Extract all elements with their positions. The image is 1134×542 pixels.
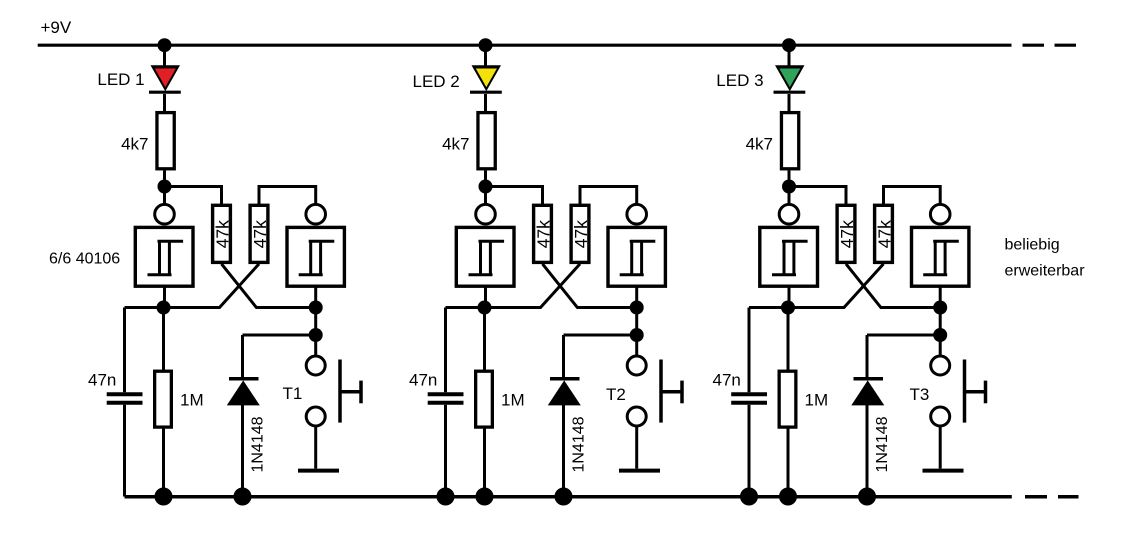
- svg-text:LED 1: LED 1: [97, 70, 144, 89]
- svg-text:T2: T2: [606, 385, 626, 404]
- svg-text:erweiterbar: erweiterbar: [1005, 263, 1086, 280]
- svg-text:+9V: +9V: [41, 18, 72, 37]
- svg-text:LED 2: LED 2: [413, 72, 460, 91]
- svg-text:T3: T3: [910, 385, 930, 404]
- svg-text:6/6 40106: 6/6 40106: [49, 251, 120, 268]
- svg-text:T1: T1: [283, 384, 303, 403]
- svg-text:LED 3: LED 3: [716, 71, 763, 90]
- svg-text:beliebig: beliebig: [1005, 237, 1060, 254]
